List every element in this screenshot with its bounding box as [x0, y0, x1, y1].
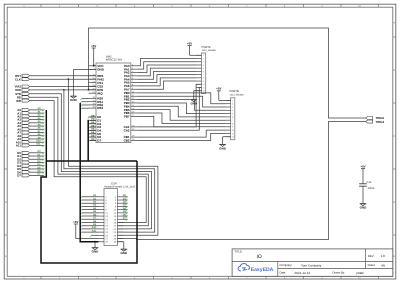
wire EXP D1 — [123, 197, 128, 201]
svg-text:10: 10 — [232, 129, 234, 132]
wire PA1 — [138, 62, 197, 69]
wire EXP A4 — [80, 207, 98, 211]
wire EXP D0 — [123, 194, 128, 198]
net port D3 — [17, 160, 44, 165]
wire PA0 — [138, 59, 197, 66]
wire RS2 stub — [80, 104, 88, 106]
svg-text:100nF: 100nF — [368, 187, 376, 190]
svg-text:10: 10 — [203, 83, 205, 86]
net port WR — [16, 99, 30, 103]
svg-text:PB7: PB7 — [124, 114, 130, 118]
svg-text:D: D — [5, 201, 7, 204]
svg-text:GND: GND — [92, 250, 100, 254]
svg-text:B: B — [393, 69, 395, 72]
svg-text:GND: GND — [360, 206, 368, 210]
wire EXP A5 — [80, 210, 98, 214]
wire PB4 — [138, 106, 226, 117]
net port TRIG4 — [366, 120, 385, 124]
svg-text:jddah: jddah — [356, 271, 365, 275]
wire PB6 — [138, 113, 226, 124]
wire PB7 — [138, 116, 226, 126]
wire RST to RES — [30, 75, 96, 77]
svg-text:W65C22 VIA: W65C22 VIA — [106, 58, 122, 62]
wire EXP D6 — [123, 213, 128, 217]
wire CB1 — [138, 130, 226, 137]
wire R/W to RW — [30, 89, 96, 91]
svg-text:TITLE:: TITLE: — [235, 251, 243, 254]
net port VIA2 — [15, 85, 30, 89]
svg-text:11: 11 — [203, 86, 205, 89]
net port D6 — [17, 169, 44, 174]
svg-text:1: 1 — [232, 99, 233, 102]
connector EXP Header-Female-2.54_2x15 — [99, 183, 136, 246]
net port RST — [15, 74, 29, 78]
svg-text:1: 1 — [203, 54, 204, 57]
svg-text:12: 12 — [203, 90, 205, 93]
wire EXP D2 — [123, 201, 128, 205]
svg-text:IRQ: IRQ — [97, 91, 103, 95]
svg-text:4/5: 4/5 — [381, 263, 386, 267]
wire RS1 stub — [80, 101, 88, 103]
wire RS3 stub — [80, 108, 88, 110]
svg-text:+5V: +5V — [187, 41, 192, 45]
net port A0 — [17, 107, 44, 112]
svg-text:Drawn By:: Drawn By: — [333, 272, 346, 275]
net port A8 — [17, 133, 44, 138]
wire EXP D7 — [123, 217, 128, 221]
net port STB — [15, 92, 29, 96]
wire EXP A6 — [80, 213, 98, 217]
net port TRIG0 — [366, 116, 385, 120]
svg-text:5: 5 — [203, 67, 204, 70]
wire EXP A9 — [80, 223, 98, 227]
svg-text:1x12_Header: 1x12_Header — [230, 93, 245, 96]
wire PA6 — [138, 78, 197, 86]
svg-text:A11: A11 — [92, 229, 97, 232]
svg-text:B: B — [5, 69, 7, 72]
net port A3 — [17, 117, 44, 122]
net port A2 — [17, 114, 44, 119]
power +5V chip — [91, 44, 96, 67]
ground C13 GND — [360, 203, 368, 210]
power +5V EXP — [73, 220, 98, 239]
wire EXP A3 — [80, 204, 98, 208]
wire CA2 — [138, 88, 202, 131]
EasyEDA logo — [238, 264, 274, 274]
wire PB2 — [138, 100, 226, 111]
svg-text:1x12_Header: 1x12_Header — [202, 49, 217, 52]
capacitor C13 100nF — [359, 164, 375, 202]
svg-text:8: 8 — [232, 122, 233, 125]
wire D1 chip stub — [88, 118, 96, 122]
svg-text:+5V: +5V — [360, 164, 365, 168]
svg-text:6: 6 — [203, 70, 204, 73]
wire top rail to TRIG0 — [88, 28, 366, 118]
svg-text:D7: D7 — [97, 139, 101, 143]
ground PORTA GND — [190, 91, 201, 106]
net port A4 — [17, 120, 44, 125]
ground PORTB GND — [219, 137, 230, 151]
wire D3 chip stub — [88, 124, 96, 128]
svg-text:7: 7 — [232, 119, 233, 122]
svg-text:C: C — [5, 135, 7, 138]
svg-text:1.0: 1.0 — [381, 254, 386, 258]
net port D0 — [17, 150, 44, 155]
svg-text:Sheet:: Sheet: — [368, 264, 376, 267]
wire WR to EXP — [30, 101, 147, 223]
wire PA5 — [138, 75, 197, 83]
wire PA4 — [138, 71, 197, 79]
svg-text:A11: A11 — [16, 144, 22, 148]
svg-text:3: 3 — [203, 61, 204, 64]
wire EXP D3 — [123, 204, 128, 208]
svg-text:IO: IO — [257, 254, 262, 260]
svg-text:CB2: CB2 — [124, 139, 130, 143]
net port D2 — [17, 157, 44, 162]
wire D4 chip stub — [88, 128, 96, 132]
wire EXP D5 — [123, 210, 128, 214]
wire VIA2 to CS2 — [30, 86, 96, 88]
net port RD — [17, 95, 30, 99]
net port A5 — [17, 123, 44, 128]
wire PB0 — [138, 93, 226, 104]
svg-text:12: 12 — [232, 136, 234, 139]
wire PB5 — [138, 110, 226, 121]
title block — [232, 249, 393, 276]
svg-text:C13: C13 — [367, 181, 372, 184]
wire PA2 — [138, 65, 197, 73]
svg-text:+5V: +5V — [216, 87, 221, 91]
svg-text:E: E — [5, 255, 7, 258]
svg-text:4: 4 — [232, 109, 233, 112]
svg-text:Your Company: Your Company — [301, 264, 322, 268]
op-amp U1 chip VIA2 W65C22 — [89, 55, 138, 143]
svg-text:EasyEDA: EasyEDA — [251, 267, 274, 273]
power +5V PORTB — [216, 87, 230, 101]
net port A6 — [17, 127, 44, 132]
svg-text:9: 9 — [232, 126, 233, 129]
wire CB2 — [138, 133, 226, 140]
svg-text:Date:: Date: — [280, 272, 287, 275]
svg-text:D: D — [393, 201, 395, 204]
power +5V PORTA — [187, 41, 202, 55]
wire thick D bus — [87, 120, 89, 161]
wire STB to EXP — [30, 94, 152, 229]
wire PB1 — [138, 96, 226, 107]
wire EXP D4 — [123, 207, 128, 211]
net port A10 — [16, 140, 45, 145]
svg-text:RS3: RS3 — [97, 106, 103, 110]
wire PA3 — [138, 68, 197, 76]
svg-text:REV:: REV: — [368, 255, 374, 258]
svg-text:A11: A11 — [36, 143, 41, 146]
svg-text:Company:: Company: — [280, 263, 293, 267]
wire D7 chip stub — [88, 138, 96, 142]
net port D5 — [17, 166, 44, 171]
net port R/W — [15, 88, 29, 92]
ground EXP left GND — [92, 241, 100, 254]
wire D2 chip stub — [88, 121, 96, 125]
wire EXP A11 — [80, 229, 98, 233]
svg-text:4: 4 — [203, 64, 204, 67]
svg-text:6: 6 — [232, 116, 233, 119]
svg-text:GND: GND — [97, 68, 105, 72]
wire thick mid horizontal — [46, 160, 137, 162]
net port A11 — [16, 143, 45, 148]
wire PA7 — [138, 81, 197, 89]
connector PORTA 1x12_Header — [196, 46, 216, 94]
svg-text:+5V: +5V — [91, 44, 96, 48]
svg-text:+5V: +5V — [73, 220, 78, 224]
wire EXP row13 — [90, 235, 99, 237]
svg-text:2: 2 — [232, 103, 233, 106]
net port CLK — [15, 77, 30, 81]
wire EXP A0 — [80, 194, 98, 198]
wire RS0 stub — [80, 98, 88, 100]
net port A1 — [17, 110, 44, 115]
wire TRIG4 long — [137, 122, 366, 240]
svg-text:8: 8 — [203, 77, 204, 80]
svg-text:GND: GND — [70, 98, 78, 102]
svg-text:3: 3 — [232, 106, 233, 109]
wire thick RS bus — [80, 103, 98, 242]
net port D1 — [17, 153, 44, 158]
svg-text:D7: D7 — [17, 174, 21, 178]
svg-text:5: 5 — [232, 113, 233, 116]
svg-text:TRIG4: TRIG4 — [376, 120, 385, 124]
wire thick left bus — [41, 110, 137, 263]
wire R/W drop to EXP — [64, 90, 155, 232]
svg-text:C: C — [393, 135, 395, 138]
svg-text:A: A — [5, 22, 7, 25]
wire RD to EXP — [30, 97, 149, 226]
wire CLK drop to EXP — [68, 79, 157, 235]
wire D0 chip stub — [88, 114, 96, 118]
wire D5 chip stub — [88, 131, 96, 135]
net port A7 — [17, 130, 44, 135]
wire EXP A1 — [80, 197, 98, 201]
svg-text:E: E — [393, 255, 395, 258]
wire EXP A8 — [80, 220, 98, 224]
svg-text:CLK: CLK — [15, 77, 22, 81]
wire EXP A7 — [80, 217, 98, 221]
wire EXP A2 — [80, 201, 98, 205]
svg-text:2021-12-12: 2021-12-12 — [294, 271, 310, 275]
wire D6 chip stub — [88, 134, 96, 138]
net port D4 — [17, 163, 44, 168]
net port D7 — [17, 173, 44, 178]
svg-text:11: 11 — [232, 132, 234, 135]
svg-text:GND: GND — [219, 146, 227, 150]
svg-text:GND: GND — [120, 251, 128, 255]
net port A9 — [17, 136, 44, 141]
wire CLK to PHI2 — [30, 78, 96, 80]
svg-text:9: 9 — [203, 80, 204, 83]
svg-text:7: 7 — [203, 74, 204, 77]
svg-text:2: 2 — [203, 57, 204, 60]
wire CA1 — [138, 84, 202, 127]
ground chip GND — [70, 69, 96, 102]
connector PORTB 1x12_Header — [226, 90, 244, 140]
ground EXP right GND — [117, 242, 128, 256]
svg-text:CA2: CA2 — [124, 128, 130, 132]
wire EXP A10 — [80, 226, 98, 230]
wire PB3 — [138, 103, 226, 114]
svg-text:A: A — [393, 22, 395, 25]
wire EXP row14 right — [117, 239, 138, 241]
